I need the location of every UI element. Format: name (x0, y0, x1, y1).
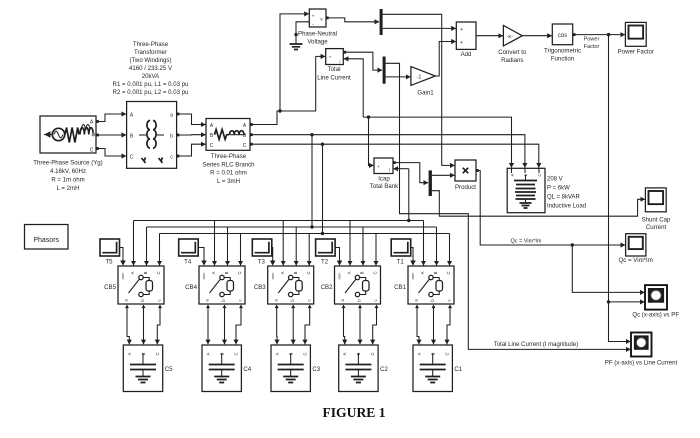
svg-text:Shunt Cap: Shunt Cap (642, 217, 671, 224)
svg-text:A: A (280, 271, 285, 274)
wire Convert to Radians out to cos (522, 35, 552, 37)
capacitor block C3 (271, 345, 310, 392)
scope XY Qc vs PF (645, 285, 667, 310)
svg-text:+: + (312, 14, 315, 19)
svg-text:CB4: CB4 (185, 284, 197, 291)
bus line C (160, 233, 450, 235)
svg-text:Total: Total (328, 66, 341, 73)
node junction Icap tap (367, 115, 370, 118)
port stubs source outputs (96, 120, 99, 123)
wire transformer b to RLC B (180, 134, 206, 136)
wire CB3 a to C3 A (276, 308, 278, 344)
wire TLC i out to demux2 (346, 52, 382, 70)
port stub cos out (573, 33, 576, 36)
svg-text:C: C (306, 271, 311, 274)
svg-text:Qc = Vim*Im: Qc = Vim*Im (511, 238, 542, 244)
capacitor block C4 (202, 345, 241, 392)
svg-text:C2: C2 (380, 366, 388, 373)
svg-text:T1: T1 (397, 259, 405, 266)
demux2 bar (383, 57, 386, 84)
wire into Total Line Current + (316, 55, 326, 57)
svg-text:A: A (130, 271, 135, 274)
svg-text:com: com (271, 273, 275, 280)
wire source B to transformer B (99, 134, 126, 136)
wire TLC return trunk A to load (363, 117, 511, 168)
capacitor block C1 (413, 345, 452, 392)
svg-text:com: com (121, 273, 125, 280)
wire PF down to XY1 bottom (609, 35, 645, 302)
port stubs CB1 outputs (415, 305, 419, 309)
svg-text:T3: T3 (258, 259, 266, 266)
svg-text:R = 1m ohm: R = 1m ohm (51, 177, 84, 184)
wire T2 to CB2 com (335, 248, 339, 262)
svg-text:A: A (420, 271, 425, 274)
wire bus C down to CB2 C (375, 234, 377, 266)
svg-text:B: B (224, 271, 229, 274)
node junction Qc branch (571, 243, 574, 246)
svg-text:Three-Phase Source (Yg): Three-Phase Source (Yg) (33, 160, 102, 167)
wire Icap return from bus1 (394, 168, 409, 170)
ground (295, 33, 298, 36)
svg-text:Power: Power (584, 37, 600, 43)
svg-text:R1 = 0.001 pu, L1 = 0.03 pu: R1 = 0.001 pu, L1 = 0.03 pu (113, 81, 189, 88)
svg-text:A: A (275, 352, 280, 355)
svg-text:FIGURE 1: FIGURE 1 (322, 405, 385, 420)
svg-text:(Two Windings): (Two Windings) (130, 57, 172, 64)
svg-text:Total Line Current (I magnitud: Total Line Current (I magnitude) (494, 342, 578, 348)
svg-text:B: B (433, 271, 438, 274)
wire source A to transformer A (99, 114, 126, 122)
port stubs CB3 outputs (275, 305, 279, 309)
wire tap down to Icap (369, 117, 374, 165)
svg-text:T2: T2 (321, 259, 329, 266)
timer block T3 (252, 239, 271, 256)
block Add (456, 22, 476, 49)
wire demux3 out to Shunt scope (432, 191, 645, 217)
wire CB5 c to C5 C (157, 308, 160, 344)
wire bus C down to CB5 C (159, 234, 161, 266)
wire CB1 a to C1 A (417, 308, 419, 344)
svg-text:Convert to: Convert to (498, 49, 527, 56)
block Total Line Current (326, 49, 344, 65)
wire CB2 c to C2 C (373, 308, 377, 344)
wire bus A down to CB4 A (214, 221, 216, 266)
svg-text:com: com (202, 273, 206, 280)
capacitor block C2 (339, 345, 378, 392)
wire Add out to Convert to Radians (476, 35, 503, 37)
wire bus C down to CB1 C (449, 234, 451, 266)
svg-text:A: A (510, 173, 515, 176)
wire demux1 Vangle to Add (383, 27, 456, 29)
port stubs CB5 outputs (125, 305, 129, 309)
svg-text:C4: C4 (243, 366, 251, 373)
svg-text:C: C (303, 352, 308, 355)
svg-text:C: C (234, 352, 239, 355)
wire trunk C to load C (253, 144, 539, 167)
wire bus B down to CB4 B (227, 227, 229, 265)
port stub Icap i (393, 161, 396, 164)
svg-text:C: C (210, 143, 214, 149)
svg-text:+: + (329, 56, 332, 61)
scope Shunt Cap Current (645, 188, 666, 212)
svg-text:Voltage: Voltage (307, 38, 328, 45)
svg-text:a: a (170, 113, 173, 119)
svg-text:P = 6kW: P = 6kW (547, 186, 570, 192)
svg-text:B: B (143, 271, 148, 274)
wire trunk C down to bus3 (322, 144, 324, 233)
node junction trunk B (310, 133, 313, 136)
svg-text:Add: Add (461, 51, 472, 58)
wire CB4 a to C4 A (207, 308, 209, 344)
svg-text:Line Current: Line Current (317, 74, 351, 81)
wire CB5 a to C5 A (127, 308, 129, 344)
demux3 bar (429, 170, 432, 196)
wire bus B down to CB3 B (295, 227, 297, 265)
wire bus A down to CB2 A (349, 221, 351, 266)
node junction PF branch (607, 33, 610, 36)
svg-text:C: C (537, 173, 542, 176)
svg-text:C: C (446, 271, 451, 274)
svg-text:Power Factor: Power Factor (618, 49, 654, 56)
block Product (455, 160, 476, 181)
svg-text:20kVA: 20kVA (142, 73, 160, 80)
svg-text:T4: T4 (184, 259, 192, 266)
node junction PF to XY2 (607, 300, 610, 303)
wire T3 to CB3 com (271, 248, 274, 262)
wire CB2 b to C2 B (359, 308, 361, 344)
svg-text:cos: cos (558, 33, 567, 39)
svg-text:c: c (447, 299, 452, 301)
port stub Phase-Neutral Voltage v (326, 17, 329, 20)
scope Power Factor (625, 22, 646, 46)
svg-text:c: c (157, 299, 162, 301)
svg-text:A: A (127, 352, 132, 355)
svg-text:B: B (293, 271, 298, 274)
svg-text:C: C (155, 352, 160, 355)
svg-text:QL = 8kVAR: QL = 8kVAR (547, 195, 581, 201)
svg-text:CB5: CB5 (104, 284, 116, 291)
svg-text:Phase-Neutral: Phase-Neutral (298, 31, 337, 38)
svg-text:4160 / 233.25 V: 4160 / 233.25 V (129, 65, 173, 72)
capacitor block C5 (123, 345, 162, 392)
wire bus B down to CB2 B (362, 227, 364, 265)
block Trigonometric Function (552, 24, 572, 45)
svg-text:A: A (211, 271, 216, 274)
svg-text:+: + (460, 40, 463, 46)
svg-text:Trigonometric: Trigonometric (544, 48, 581, 55)
block Three-Phase Source (Yg) (40, 116, 96, 153)
port stub Product out (476, 169, 479, 172)
wire bus C down to CB3 C (308, 234, 310, 266)
block Three-Phase Series RLC Branch (206, 119, 250, 151)
wire T1 to CB1 com (411, 248, 413, 262)
port stubs RLC outputs (250, 123, 253, 126)
svg-text:CB2: CB2 (321, 284, 333, 291)
svg-text:Phasors: Phasors (33, 237, 59, 244)
svg-text:C1: C1 (454, 366, 462, 373)
svg-text:i: i (340, 59, 341, 64)
wire bus A down to CB3 A (282, 221, 284, 266)
svg-text:c: c (238, 299, 243, 301)
port stubs CB4 outputs (206, 305, 210, 309)
svg-text:Total Bank: Total Bank (370, 183, 399, 190)
svg-text:R = 0.01 ohm: R = 0.01 ohm (210, 170, 247, 177)
breaker block CB5 (118, 266, 164, 304)
scope XY PF vs Line Current (631, 333, 652, 357)
wire trunk B down to bus2 (311, 135, 313, 227)
wire v out to demux1 (329, 18, 380, 22)
svg-text:C: C (243, 143, 247, 149)
wire bus B down to CB1 B (436, 227, 438, 265)
svg-text:c: c (306, 299, 311, 301)
bus line A (134, 220, 424, 222)
svg-text:-1: -1 (417, 74, 422, 80)
bus line B (147, 226, 437, 228)
svg-text:C: C (130, 155, 134, 161)
svg-text:L = 3mH: L = 3mH (217, 178, 240, 185)
svg-text:Product: Product (455, 184, 476, 191)
wire CB3 c to C3 C (305, 308, 310, 344)
wire demux1 Vm down to Product (383, 14, 455, 165)
svg-text:T5: T5 (105, 259, 113, 266)
block three-phase load (507, 168, 545, 212)
svg-text:+: + (377, 165, 380, 170)
svg-text:Qc = Vim*Im: Qc = Vim*Im (619, 257, 653, 264)
wire cos out to Power Factor scope (574, 34, 625, 36)
breaker block CB2 (335, 266, 381, 304)
wire T5 to CB5 com (120, 248, 124, 262)
block Three-Phase Transformer (127, 102, 177, 169)
timer block T1 (391, 239, 411, 256)
svg-text:CB1: CB1 (394, 284, 406, 291)
svg-text:Factor: Factor (584, 44, 600, 50)
svg-text:A: A (342, 352, 347, 355)
wire bus A down to CB5 A (133, 221, 135, 266)
svg-text:Three-Phase: Three-Phase (133, 41, 169, 48)
wire CB2 a to C2 A (344, 308, 345, 344)
svg-text:L = 2mH: L = 2mH (57, 185, 80, 192)
wire Icap i out to demux3 (396, 163, 428, 183)
port stubs transformer outputs (177, 113, 180, 116)
block Icap Total Bank (374, 158, 393, 174)
wire bus A down to CB1 A (423, 221, 425, 266)
wire trunk B to load B (253, 135, 525, 168)
breaker block CB1 (408, 266, 454, 304)
timer block T2 (316, 239, 336, 256)
wire Phase-Neutral Voltage - to ground (296, 22, 309, 34)
wire bus B down to CB5 B (146, 227, 148, 265)
svg-text:c: c (373, 299, 378, 301)
svg-text:C: C (156, 271, 161, 274)
node junction bus2 feed (310, 225, 313, 228)
wire CB1 c to C1 C (447, 308, 450, 344)
svg-text:C3: C3 (312, 366, 320, 373)
svg-text:Inductive Load: Inductive Load (547, 204, 586, 210)
wire CB5 b to C5 B (143, 308, 145, 344)
svg-text:C: C (373, 271, 378, 274)
svg-text:Radians: Radians (501, 57, 523, 64)
node junction trunk C (321, 143, 324, 146)
svg-text:Function: Function (551, 56, 574, 63)
port stubs CB2 outputs (342, 305, 346, 309)
svg-text:B: B (360, 271, 365, 274)
wire source C to transformer C (99, 149, 126, 157)
wire transformer a to RLC A (180, 114, 206, 125)
wire Icap return down (408, 169, 410, 221)
wire Product out Qc line (479, 171, 625, 246)
svg-text:i: i (389, 168, 390, 173)
wire demux2 I angle to Gain1 (386, 76, 411, 78)
svg-text:com: com (411, 273, 415, 280)
svg-text:com: com (338, 273, 342, 280)
wire PF down to XY2 top (609, 302, 631, 342)
svg-text:CB3: CB3 (254, 284, 266, 291)
svg-text:A: A (347, 271, 352, 274)
wire bus C down to CB4 C (240, 234, 242, 266)
breaker block CB3 (268, 266, 314, 304)
wire demux3 out to Product (432, 174, 455, 176)
svg-text:R2 = 0.001 pu, L2 = 0.03 pu: R2 = 0.001 pu, L2 = 0.03 pu (113, 89, 189, 96)
scope Qc display (626, 234, 646, 256)
svg-text:C: C (90, 148, 94, 154)
node junction A to voltage tap (278, 109, 281, 112)
gain Convert to Radians (503, 25, 522, 46)
svg-text:PF (x-axis) vs Line Current: PF (x-axis) vs Line Current (605, 360, 678, 367)
timer block T5 (100, 239, 120, 256)
block Phase-Neutral Voltage (309, 9, 326, 27)
svg-text:Qc (x-axis) vs PF: Qc (x-axis) vs PF (632, 312, 679, 319)
wire T4 to CB4 com (198, 248, 204, 262)
svg-text:4.16kV, 60Hz: 4.16kV, 60Hz (50, 168, 86, 175)
wire tap up to Phase-Neutral Voltage + (280, 14, 309, 111)
wire demux2 I magnitude long path (386, 63, 631, 349)
wire CB4 c to C4 C (236, 308, 241, 344)
node junction bus3 feed (321, 232, 324, 235)
svg-text:C: C (370, 352, 375, 355)
wire Gain1 out to Add (435, 42, 455, 77)
svg-text:C5: C5 (165, 366, 173, 373)
wire CB4 b to C4 B (224, 308, 226, 344)
svg-text:C: C (237, 271, 242, 274)
svg-text:208 V: 208 V (547, 177, 563, 183)
block Phasors (25, 225, 69, 250)
svg-text:+: + (460, 27, 463, 33)
wire RLC A up to line (253, 56, 316, 124)
svg-text:Three-Phase: Three-Phase (211, 153, 247, 160)
demux1 bar (380, 9, 383, 35)
svg-text:b: b (170, 134, 173, 140)
svg-text:A: A (206, 352, 211, 355)
port stub Total Line Current i (343, 51, 346, 54)
gain Gain1 (411, 67, 436, 86)
svg-text:Current: Current (646, 224, 667, 231)
wire CB3 b to C3 B (292, 308, 294, 344)
svg-text:A: A (417, 352, 422, 355)
wire Qc down to XY1 top (572, 245, 644, 292)
svg-text:Gain1: Gain1 (417, 90, 434, 97)
wire TLC return down to trunk A (344, 59, 363, 117)
timer block T4 (179, 239, 199, 256)
svg-text:-K-: -K- (507, 34, 514, 40)
wire CB1 b to C1 B (433, 308, 435, 344)
wire transformer c to RLC C (180, 144, 206, 156)
svg-text:C: C (445, 352, 450, 355)
node junction bus1 feed (407, 219, 410, 222)
svg-text:Series RLC Branch: Series RLC Branch (202, 161, 254, 168)
breaker block CB4 (199, 266, 245, 304)
svg-text:Icap: Icap (378, 176, 390, 183)
svg-text:Transformer: Transformer (134, 49, 167, 56)
